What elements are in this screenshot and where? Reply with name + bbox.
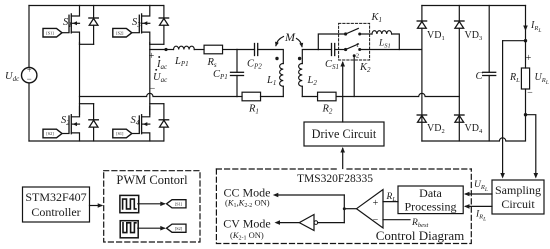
wire CP2 to L1 corner [258,50,284,64]
diode VD2 [417,114,426,116]
transistor S1 channel bar [70,14,72,33]
switch K1 blade [346,28,359,34]
dashed box TMS320F28335 top edge [216,168,471,170]
resistor RL [521,68,529,89]
switch K2 contact 2 [353,54,356,57]
dashed box K switches [339,23,370,60]
transistor S2 source connection [71,133,79,141]
transistor S4 body arrow [143,123,150,125]
gate drive tag [S1] [43,28,62,37]
arrow M left [276,37,284,46]
svg-text:−: − [27,74,32,84]
diode VD3 leg [458,6,460,22]
wire primary loop top to CP2 [237,49,255,51]
svg-text:Processing: Processing [405,200,457,214]
svg-text:C: C [475,71,483,82]
switch K1 contact [358,33,361,36]
wire S1 source to diode join [80,43,94,45]
wire inverter top bus [29,5,164,7]
transistor S1 source connection [71,32,79,44]
wire RL top to sense [503,40,526,42]
transistor S3 body arrow [143,22,150,24]
wire K1 contact to LS1 [360,33,372,35]
coil L2 top wire [302,50,318,64]
wire RL branch top [525,6,527,41]
arrow URL into data [466,193,493,195]
comparator U1 [357,190,384,229]
arrow pwm2 to tag [138,227,164,229]
source Udc [22,68,37,83]
transistor S1 gate bar [68,15,70,32]
wire LS1 to corner down [392,34,400,50]
transistor S3 gate bar [138,15,140,32]
switch K2 blade [346,44,359,50]
transistor S4 source connection [142,133,150,141]
svg-text:TMS320F28335: TMS320F28335 [297,173,373,185]
transistor S2 channel bar [70,115,72,134]
wire drive to K2 arrow [342,63,344,123]
box pwm wave 1 [120,195,139,212]
svg-text:−: − [527,88,533,99]
wire rectifier bottom bus with hop [422,115,526,141]
wire VD1 leg middle [421,50,423,142]
transistor S1 drain connection [71,6,79,17]
switch K2 contact 1 [358,48,361,51]
wire LP1 to Rs [194,49,204,51]
wire comparator plus input [383,201,398,203]
transistor S3 drain connection [142,6,150,17]
svg-text:M: M [284,30,296,44]
wire RL bottom [525,89,527,115]
tag [S2] pwm [167,224,187,232]
transistor S4 drain connection [142,106,150,117]
wire ac bottom output with hop at right leg [80,93,238,96]
svg-text:Sampling: Sampling [495,183,541,197]
wire output vertical branch [343,195,345,223]
transistor S4 gate bar [138,116,140,133]
box STM32F407 Controller [23,187,90,222]
wire left leg midpoint [79,43,81,115]
tag [S1] pwm [167,200,187,208]
svg-text:CV Mode: CV Mode [223,217,270,231]
transistor S3 channel bar [141,14,143,33]
box pwm wave 2 [120,221,138,238]
svg-text:−: − [373,215,379,226]
switch K2 common node [344,48,347,51]
gate drive tag [S2] [113,28,132,37]
node output junction [343,207,346,210]
wire comparator minus input [383,219,410,221]
wire loop bottom left segment [237,96,242,98]
svg-text:PWM Contorl: PWM Contorl [116,173,188,187]
svg-text:[S2]: [S2] [175,226,183,231]
transistor S2 body arrow [72,123,79,125]
diode body S1 [93,6,95,19]
svg-text:Data: Data [419,186,442,200]
svg-text:Circuit: Circuit [501,197,535,211]
resistor Rs [204,45,223,54]
arrow IRL [523,26,528,32]
svg-text:[S1]: [S1] [116,131,124,136]
wire left rail upper [28,6,30,68]
svg-text:Controller: Controller [31,205,80,219]
capacitor C branch upper [488,6,490,73]
capacitor C [483,71,496,73]
wire RL top to resistor [525,41,527,68]
wire inverter bottom bus [29,140,164,142]
svg-text:Drive Circuit: Drive Circuit [312,127,377,141]
diode body S4 [163,104,165,120]
wire gate lead S2 [62,133,69,135]
dashed box TMS left right bottom [216,169,471,244]
transistor S3 source connection [142,32,150,44]
svg-text:[S2]: [S2] [46,131,54,136]
node L2 polarity dot [298,57,301,60]
arrow STM to PWM [90,205,102,207]
node RL top [524,39,527,42]
svg-text:+: + [526,53,532,64]
wire ac+ to LP1 [166,49,174,51]
node RL bottom [524,113,527,116]
wire TMS to drive arrow [342,149,344,169]
gate drive tag [S2] [43,129,62,138]
diode body S3 [163,6,165,19]
gate drive tag [S1] [113,129,132,138]
node ac+ [164,48,167,51]
inductor LP1 [174,46,195,49]
wire loop bottom right segment [261,96,284,98]
wire S4 diode top stub [150,103,164,105]
wire gate lead S3 [132,32,140,34]
svg-text:+: + [149,51,155,62]
svg-text:+: + [373,198,379,209]
wire secondary bottom to R2 [302,96,317,98]
box Data Processing [398,186,463,214]
wire CP1 branch lower [236,76,238,97]
node L1 polarity dot [275,57,278,60]
svg-text:[S1]: [S1] [46,30,54,35]
svg-text:(K2-1 ON): (K2-1 ON) [230,230,264,242]
wire Rs to node CP1 [223,49,237,51]
wire right leg midpoint [149,43,151,115]
coil L1 [280,64,284,87]
transistor S2 gate bar [68,116,70,133]
diode body S2 [93,104,95,120]
inductor LS1 [372,31,392,34]
wire ac top output [150,49,166,51]
wire K2 contact1 to rectifier [360,49,422,51]
diode VD4 [455,114,464,116]
dashed box PWM Contorl [104,171,200,242]
wire K2 contact2 down to bottom rail [353,56,355,97]
coil L2 [299,64,303,87]
diode VD1 leg [421,6,423,22]
capacitor C branch lower [488,76,490,142]
wire S3 source to diode join [150,43,164,45]
svg-text:[S2]: [S2] [116,30,124,35]
wire gate lead S4 [132,133,140,135]
arrow IRL into data [466,205,493,207]
svg-text:Control Diagram: Control Diagram [376,228,464,243]
svg-text:STM32F407: STM32F407 [25,190,86,204]
wire R2 to rectifier with hop at VD1 leg [336,93,459,96]
wire URL sense line down [502,41,504,177]
capacitor CS1 [331,44,333,56]
wire comparator output [344,208,356,210]
svg-text:1: 1 [356,42,359,49]
wire left rail lower [28,83,30,141]
wire gate lead S1 [62,32,69,34]
wire rectifier top bus [422,5,526,7]
arrow M right [297,39,303,47]
resistor R2 [318,92,337,101]
transistor S2 drain connection [71,106,79,117]
arrow CC mode [276,194,345,196]
buffer inverter [299,215,314,231]
svg-text:2: 2 [356,53,359,60]
transistor S4 channel bar [141,115,143,134]
wire buffer input [318,222,345,224]
svg-text:[S1]: [S1] [175,201,183,206]
switch K1 common node [344,32,347,35]
wire CP1 branch upper [236,50,238,73]
wire L2 bottom [301,86,303,96]
wire L1 bottom [282,86,284,96]
box Drive Circuit [304,122,384,146]
arrow CV mode [277,222,299,224]
capacitor CP2 [254,44,256,56]
wire IRL sense branch [526,115,536,177]
wire node A to CS1 [318,49,331,51]
wire CS1 to K2 common [335,49,346,51]
box Sampling Circuit [492,180,544,214]
transistor S1 body arrow [72,22,79,24]
capacitor CP1 [231,71,244,73]
wire S2 diode top stub [80,103,94,105]
arrow pwm1 to tag [138,203,164,205]
resistor R1 [242,92,260,101]
wire node A up-branch to K1 [318,34,345,50]
